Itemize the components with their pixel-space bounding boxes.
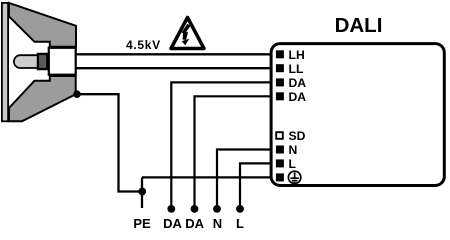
warning triangle high voltage bbox=[171, 18, 204, 49]
earth symbol circled bbox=[288, 171, 300, 183]
wire LH lamp to ballast bbox=[76, 53, 278, 55]
terminal dot L bbox=[236, 205, 244, 213]
svg-text:SD: SD bbox=[289, 129, 306, 143]
junction dot PE bbox=[138, 188, 146, 196]
lamp LA1 reflector bottom wedge bbox=[9, 76, 76, 121]
terminal dot N bbox=[213, 205, 221, 213]
wire PE vertical bbox=[141, 177, 143, 208]
wire N bbox=[217, 150, 278, 209]
svg-text:DA: DA bbox=[163, 216, 182, 228]
lamp LA1 capsule bulb bbox=[14, 55, 39, 68]
lamp LA1 capsule base bbox=[38, 54, 47, 69]
terminal DA lower bbox=[276, 92, 284, 100]
svg-text:DA: DA bbox=[289, 90, 307, 104]
terminal earth bbox=[276, 173, 284, 181]
svg-text:N: N bbox=[289, 143, 298, 157]
wire DA1 bbox=[171, 82, 278, 208]
terminal LL bbox=[276, 64, 284, 72]
svg-text:LH: LH bbox=[289, 48, 305, 62]
wire lamp ground to PE bbox=[77, 94, 142, 191]
svg-text:L: L bbox=[289, 157, 297, 171]
terminal L bbox=[276, 159, 284, 167]
terminal N bbox=[276, 146, 284, 154]
svg-text:PE: PE bbox=[133, 216, 151, 228]
wire DA2 bbox=[195, 96, 279, 209]
terminal SD open square bbox=[276, 132, 283, 139]
svg-text:N: N bbox=[213, 216, 222, 228]
junction dot lamp reflector bbox=[73, 90, 81, 98]
lamp LA1 reflector top wedge bbox=[9, 3, 76, 47]
wire LL lamp to ballast bbox=[76, 67, 278, 69]
terminal LH bbox=[276, 50, 284, 58]
svg-text:DALI: DALI bbox=[335, 14, 383, 37]
lamp LA1 socket neck bbox=[49, 48, 76, 75]
svg-text:DA: DA bbox=[185, 216, 204, 228]
lamp LA1 reflector front rim bar bbox=[2, 3, 8, 121]
terminal dot DA2 bbox=[191, 205, 199, 213]
wire L bbox=[240, 163, 278, 209]
ballast U1 DALI control gear box bbox=[271, 44, 444, 186]
terminal DA upper bbox=[276, 78, 284, 86]
terminal dot DA1 bbox=[167, 205, 175, 213]
svg-text:LL: LL bbox=[289, 62, 304, 76]
svg-text:4.5kV: 4.5kV bbox=[126, 38, 161, 52]
svg-text:DA: DA bbox=[289, 76, 307, 90]
wire earth PE to ballast bbox=[142, 176, 278, 178]
svg-text:L: L bbox=[236, 216, 244, 228]
